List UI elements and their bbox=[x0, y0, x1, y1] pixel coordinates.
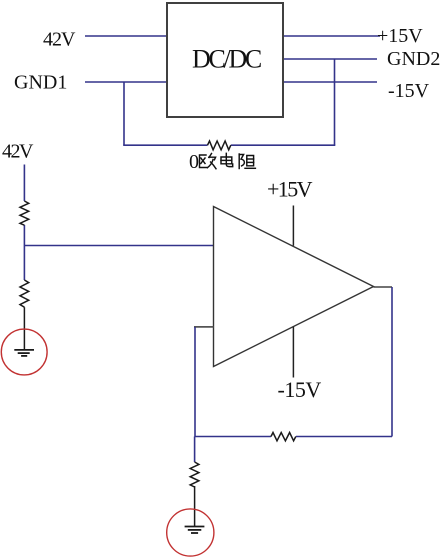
svg-text:GND2: GND2 bbox=[387, 48, 440, 70]
svg-text:-15V: -15V bbox=[388, 80, 430, 102]
svg-text:0: 0 bbox=[189, 151, 199, 173]
svg-text:42V: 42V bbox=[43, 29, 76, 51]
svg-text:GND1: GND1 bbox=[14, 72, 67, 94]
svg-text:-15V: -15V bbox=[278, 377, 322, 402]
svg-text:DC/DC: DC/DC bbox=[192, 45, 261, 74]
svg-text:42V: 42V bbox=[2, 141, 34, 163]
svg-text:+15V: +15V bbox=[267, 177, 313, 202]
svg-text:+15V: +15V bbox=[377, 25, 423, 47]
